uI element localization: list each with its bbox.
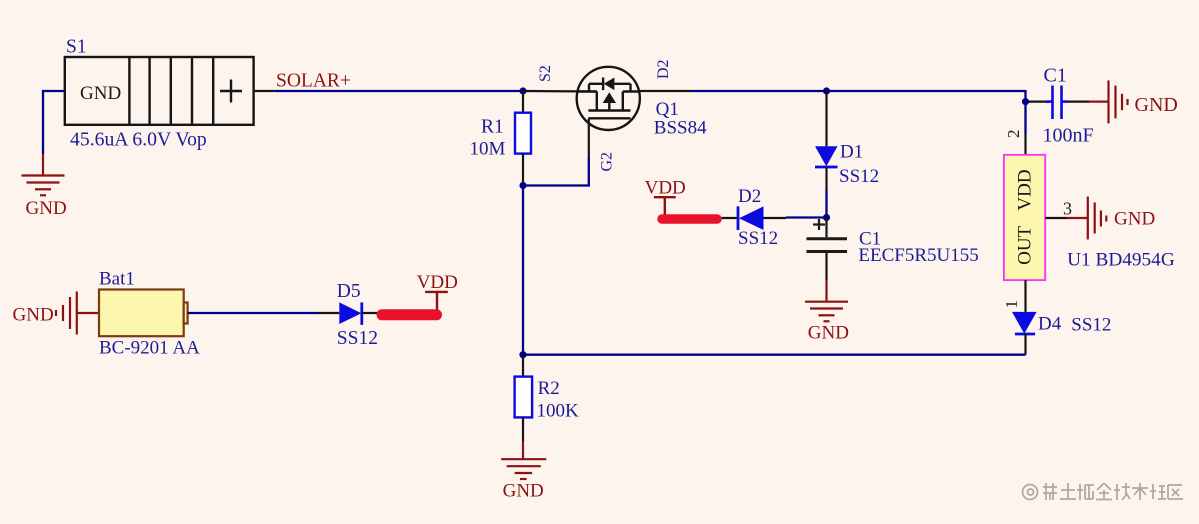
svg-text:EECF5R5U155: EECF5R5U155	[858, 245, 978, 266]
svg-text:GND: GND	[1114, 209, 1155, 230]
svg-text:GND: GND	[80, 83, 121, 104]
U1 pin 1	[1024, 280, 1026, 312]
watermark	[1023, 483, 1184, 500]
wire S1 left to GND corner	[43, 91, 65, 154]
svg-text:45.6uA 6.0V Vop: 45.6uA 6.0V Vop	[70, 129, 207, 151]
node junction C1 100nF branch	[1022, 98, 1029, 105]
wire R1 junction down to bottom rail	[522, 186, 524, 355]
resistor R1 bottom pin	[522, 154, 524, 186]
wire red to ground top right	[1089, 100, 1109, 102]
svg-text:BSS84: BSS84	[654, 118, 707, 139]
diode D2 pin right	[764, 217, 787, 219]
ground symbol bottom	[501, 459, 546, 479]
capacitor C1 100nF	[1046, 86, 1068, 120]
resistor R1 top pin	[522, 91, 524, 113]
svg-text:D2: D2	[655, 59, 672, 79]
svg-text:SS12: SS12	[337, 328, 378, 349]
diode D1	[815, 146, 838, 167]
Q1 arrow triangle	[603, 92, 616, 103]
capacitor C1 polarized plates	[807, 239, 848, 252]
wire Q1 drain pin	[639, 90, 692, 92]
svg-text:S2: S2	[537, 65, 554, 82]
svg-text:100nF: 100nF	[1043, 125, 1094, 147]
svg-text:GND: GND	[503, 481, 544, 502]
capacitor C1 pin bottom	[825, 253, 827, 280]
U1 pin 3	[1045, 217, 1067, 219]
wire red to ground pin3	[1067, 217, 1088, 219]
battery Bat1	[99, 290, 188, 337]
svg-text:3: 3	[1063, 199, 1072, 219]
svg-text:Bat1: Bat1	[99, 269, 135, 290]
svg-text:OUT: OUT	[1015, 225, 1036, 264]
ground symbol battery	[56, 292, 77, 335]
diode D1 pin bottom	[825, 167, 827, 190]
ground symbol left	[22, 176, 65, 196]
regulator U1	[1004, 155, 1045, 280]
resistor R2	[515, 377, 533, 418]
thick red net tie battery	[382, 309, 437, 320]
svg-text:VDD: VDD	[417, 272, 458, 293]
svg-text:D1: D1	[840, 142, 863, 163]
svg-text:SS12: SS12	[738, 228, 778, 249]
wire red to ground mid	[825, 280, 827, 302]
transistor Q1	[577, 67, 640, 130]
svg-text:2: 2	[1004, 130, 1023, 139]
svg-text:R1: R1	[481, 117, 504, 138]
svg-text:BC-9201 AA: BC-9201 AA	[99, 338, 200, 359]
resistor R2 bottom pin	[522, 417, 524, 441]
power VDD bar symbol mid	[654, 197, 676, 215]
solar cell S1	[65, 57, 254, 125]
svg-text:S1: S1	[66, 37, 87, 58]
wire red to ground	[42, 154, 44, 176]
capacitor C1 pin top	[825, 218, 827, 238]
svg-text:VDD: VDD	[645, 178, 686, 199]
U1 pin 2	[1024, 134, 1026, 155]
node junction D1 top	[823, 87, 830, 94]
wire gate to R1 bottom	[523, 158, 589, 186]
svg-text:SS12: SS12	[1071, 315, 1111, 336]
ground symbol mid	[805, 302, 848, 322]
ground symbol top right	[1109, 80, 1128, 123]
diode D4 pin bottom	[1024, 334, 1026, 355]
svg-text:SS12: SS12	[839, 166, 879, 187]
wire rail to top right corner	[827, 91, 1026, 102]
diode D4	[1012, 312, 1037, 334]
wire drain to D1 junction	[692, 90, 827, 92]
wire Q1 source pin	[523, 90, 597, 93]
svg-text:SOLAR+: SOLAR+	[276, 71, 351, 92]
svg-text:GND: GND	[26, 198, 67, 219]
diode D1 pin top	[825, 91, 827, 146]
svg-text:D2: D2	[738, 186, 761, 207]
svg-text:GND: GND	[808, 323, 849, 344]
wire junction down to U1 pin2	[1024, 102, 1026, 134]
svg-text:U1 BD4954G: U1 BD4954G	[1067, 250, 1175, 271]
svg-text:GND: GND	[1135, 94, 1178, 116]
S1 left pin stub	[255, 90, 275, 92]
diode D2	[738, 206, 764, 230]
svg-text:C1: C1	[1044, 65, 1067, 87]
svg-text:D4: D4	[1038, 314, 1062, 335]
wire red ground to battery	[77, 312, 99, 314]
resistor R1	[515, 113, 531, 154]
thick red net tie mid	[662, 214, 717, 224]
wire SOLAR+ rail	[275, 90, 523, 92]
capacitor C1 polarized plus sign	[813, 219, 825, 230]
Q1 body diode triangle	[604, 78, 615, 91]
svg-text:10M: 10M	[470, 139, 506, 160]
wire D1 to junction	[825, 190, 827, 218]
resistor R2 top pin	[522, 355, 524, 377]
wire VDD bar to D2	[722, 217, 739, 219]
node junction D2/C1	[823, 214, 830, 221]
wire bottom rail	[523, 354, 1026, 356]
Q1 gate pin	[588, 118, 590, 158]
svg-text:GND: GND	[13, 305, 54, 326]
wire battery to D5	[188, 312, 318, 314]
capacitor C1 100nF pin right	[1068, 100, 1089, 102]
node junction R1 bottom / gate	[519, 182, 526, 189]
diode D5 pin left	[318, 312, 339, 314]
wire C1 100nF branch	[1026, 100, 1031, 102]
diode D5 pin right	[362, 312, 378, 314]
capacitor C1 100nF pin left	[1029, 100, 1049, 102]
node junction at R1 top	[519, 87, 526, 94]
svg-text:D5: D5	[337, 281, 361, 302]
svg-text:G2: G2	[599, 152, 616, 172]
svg-text:R2: R2	[538, 378, 560, 399]
svg-text:1: 1	[1002, 300, 1021, 309]
wire red to ground bottom	[522, 441, 524, 460]
svg-text:VDD: VDD	[1015, 169, 1036, 210]
node junction bottom rail	[519, 351, 526, 358]
ground symbol pin3	[1088, 197, 1107, 240]
diode D5	[339, 302, 362, 325]
svg-text:100K: 100K	[537, 401, 580, 422]
wire D2 to junction	[786, 216, 827, 218]
power VDD bar symbol battery	[425, 292, 448, 310]
